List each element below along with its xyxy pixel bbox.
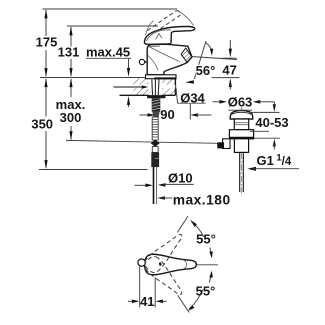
svg-text:40-53: 40-53 bbox=[255, 115, 288, 130]
svg-text:max.45: max.45 bbox=[86, 45, 130, 60]
svg-text:350: 350 bbox=[31, 116, 53, 131]
svg-text:300: 300 bbox=[60, 110, 82, 125]
svg-text:56°: 56° bbox=[196, 63, 216, 78]
svg-text:Ø10: Ø10 bbox=[168, 171, 193, 186]
svg-text:55°: 55° bbox=[196, 284, 216, 299]
svg-text:max.180: max.180 bbox=[173, 193, 231, 208]
svg-text:175: 175 bbox=[36, 35, 58, 50]
svg-text:Ø63: Ø63 bbox=[228, 94, 253, 109]
svg-text:90: 90 bbox=[160, 107, 174, 122]
svg-text:55°: 55° bbox=[196, 232, 216, 247]
svg-text:41: 41 bbox=[140, 294, 154, 309]
svg-text:131: 131 bbox=[58, 45, 80, 60]
svg-text:47: 47 bbox=[222, 63, 236, 78]
